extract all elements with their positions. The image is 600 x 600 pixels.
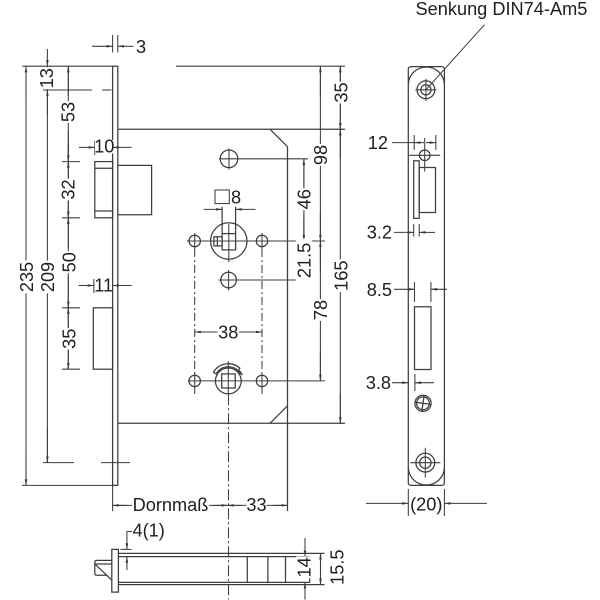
dim 11 left arrow [79, 285, 94, 287]
left dash-dot centerline [194, 249, 196, 375]
dim 33 arrow left [228, 504, 242, 506]
dim 21.5 arrow up [303, 241, 305, 260]
svg-text:35: 35 [331, 82, 351, 102]
dim 32 arrow up2 [67, 144, 69, 162]
svg-text:35: 35 [59, 329, 79, 349]
dim 15.5 line down [320, 553, 322, 584]
dim 46 arrow down [303, 214, 305, 241]
svg-text:4(1): 4(1) [133, 521, 165, 541]
dim text 78 [312, 299, 328, 321]
bottom screw hole inner [420, 457, 431, 468]
dim line Dornmass-33 [113, 504, 288, 506]
screw axis extension lower-left [43, 462, 74, 464]
svg-text:11: 11 [94, 275, 113, 295]
dim 8.5 left arrow [394, 288, 415, 290]
dim 38 line left [195, 331, 218, 333]
dim 12 base line [392, 142, 414, 144]
top extension line (faceplate top) [22, 65, 114, 67]
lower follower circle [215, 368, 241, 394]
svg-text:46: 46 [294, 189, 314, 209]
dim 38 arrow left [195, 331, 205, 333]
bottom screw v-centerline [424, 448, 426, 478]
tick at latch bottom [62, 217, 80, 219]
right small hole lower v-tick [261, 373, 263, 394]
dim text 235 [18, 261, 34, 294]
dim 14 arrow up [304, 582, 306, 599]
dim 13 upper arrow [46, 49, 48, 66]
case inner bottom line [119, 581, 310, 583]
dim 3.8 tick [414, 374, 416, 391]
svg-text:14: 14 [295, 557, 315, 577]
latch bevel diagonal [95, 564, 112, 580]
phillips screw inner [417, 397, 430, 410]
dim 35R arrow down [339, 99, 341, 129]
svg-text:53: 53 [59, 102, 79, 122]
follower slot left side / extension [221, 207, 223, 251]
svg-text:Senkung DIN74-Am5: Senkung DIN74-Am5 [416, 0, 588, 19]
case outer top line + extension [119, 552, 325, 554]
dim 32 arrow down [67, 187, 69, 218]
second screw v-centerline [424, 138, 426, 172]
dim 3 left arrow [92, 45, 113, 47]
svg-text:3.8: 3.8 [366, 373, 391, 393]
dim 78 arrow up [319, 241, 321, 271]
dim 10 left arrow [79, 146, 95, 148]
plate front extension down [112, 485, 114, 511]
dim 10 right arrow [113, 146, 132, 148]
square symbol of dim 8 [215, 190, 229, 204]
dim 8 right arrow [236, 208, 256, 210]
bottom extension line (faceplate bottom) [22, 484, 114, 486]
dim 12 tick left [413, 135, 415, 150]
left small hole v-tick [194, 233, 196, 249]
dim 12 arrow left [414, 142, 424, 144]
dim 235 arrow down [25, 451, 27, 485]
second screw hole [419, 150, 430, 161]
dim 38 arrow right [252, 331, 262, 333]
dim 46 arrow up [303, 159, 305, 186]
left small hole lower v-tick [194, 373, 196, 394]
dim text 35 right [333, 82, 349, 104]
dim 12 tick right [435, 135, 437, 150]
latch housing in case [118, 165, 152, 214]
case bottom-right chamfer [270, 406, 288, 424]
svg-text:165: 165 [331, 261, 351, 291]
dim text 11 [95, 279, 112, 292]
follower square top [222, 233, 236, 235]
dim 35L arrow up [67, 308, 69, 338]
dim text 21.5 [296, 239, 312, 283]
dim 4(1) arrow up [126, 557, 128, 570]
deadbolt cutout [415, 307, 432, 370]
lock case bottom edge + extension line [118, 422, 345, 424]
case right edge + extension down to 33-dim [287, 147, 289, 511]
follower v-centerline [228, 224, 230, 262]
dim 3.2 tick left [413, 224, 415, 237]
dim 10 tick [94, 141, 96, 155]
dim 8.5 right arrow [431, 288, 447, 290]
dim 38 line right [239, 331, 262, 333]
tick at deadbolt top [62, 307, 80, 309]
follower h-centerline + extension [187, 240, 325, 242]
dim 4(1) leader horizontal [127, 531, 132, 533]
divider 3 (bottom view) [285, 557, 287, 583]
divider 2 (bottom view) [267, 557, 269, 583]
follower square bottom [222, 249, 236, 251]
dim 235 line [25, 66, 27, 485]
dim 15.5 line up [320, 553, 322, 584]
deadbolt head [93, 308, 112, 369]
dim 3.8 right arrow [415, 382, 434, 384]
svg-text:3: 3 [136, 37, 146, 57]
dim 35/165 line [339, 66, 341, 423]
svg-text:12: 12 [368, 133, 388, 153]
upper case hole [220, 150, 238, 168]
faceplate front outline [408, 67, 444, 486]
dim 46/21.5 line [303, 159, 305, 280]
dim text 10 [95, 140, 113, 154]
divider 1 (bottom view) [246, 557, 248, 583]
svg-text:21.5: 21.5 [294, 243, 314, 278]
right small hole (upper) [256, 235, 267, 246]
dim text 165 [333, 259, 349, 292]
dim 3.2 tick right [418, 224, 420, 237]
dim 98 arrow up [319, 66, 321, 96]
dim 12 arrow right [426, 142, 436, 144]
dim (20) tick right [443, 489, 445, 516]
dim text 38 [218, 325, 240, 340]
dim 4(1) tick [121, 548, 132, 550]
extension line at faceplate top towards right dims [176, 65, 345, 67]
latch bolt step line upper [95, 167, 113, 169]
main vertical centerline (dash-dot) [228, 394, 230, 599]
dim 3 tick right [117, 35, 119, 53]
dim 3 right arrow [118, 45, 134, 47]
dim 165 arrow up [339, 129, 341, 159]
case top-right chamfer [270, 129, 288, 147]
leader line to countersink [426, 25, 485, 90]
dim (20) tick left [407, 489, 409, 516]
dim 8.5 tick left [414, 282, 416, 302]
dim 3.2 right arrow [419, 231, 435, 233]
screw axis extension upper-left [43, 89, 92, 91]
lower case hole v-centerline [228, 270, 230, 291]
svg-text:32: 32 [59, 179, 79, 199]
dim 13 lower arrow [46, 90, 48, 114]
bottom screw hole outer [416, 453, 435, 472]
dim text 46 [296, 188, 312, 210]
dim 53 arrow up [67, 66, 69, 96]
svg-text:33: 33 [246, 495, 266, 515]
left small hole (lower) [189, 375, 200, 386]
svg-text:15.5: 15.5 [328, 549, 348, 584]
phillips screw outer [415, 395, 431, 411]
dim text Dornmass [132, 497, 209, 513]
bottom screw h-centerline [410, 462, 440, 464]
dim text 209 [39, 261, 55, 294]
dim (20) right arrow [444, 502, 487, 504]
Dornmass arrow right [213, 504, 228, 506]
dim 32 arrow up [67, 162, 69, 192]
svg-text:13: 13 [37, 68, 57, 88]
latch bolt head [95, 162, 113, 218]
dim text 14 [296, 556, 312, 578]
case outer bottom line + extension [119, 584, 325, 586]
dim 21.5 join [303, 219, 305, 241]
top screw h-centerline [415, 89, 436, 91]
lower case hole h-centerline + extension [219, 279, 309, 281]
dim 8.5 tick right [430, 282, 432, 302]
tick at deadbolt bottom [62, 368, 80, 370]
lower follower h-centerline + extension [188, 380, 325, 382]
top screw hole outer [417, 81, 435, 99]
dim text 98 [312, 144, 328, 166]
follower slot right side / extension [235, 207, 237, 251]
latch cutout narrow slot [414, 161, 420, 219]
dim text 35 left [61, 328, 77, 350]
svg-text:Dornmaß: Dornmaß [133, 495, 209, 515]
dim 14 arrow down [304, 538, 306, 557]
svg-text:78: 78 [311, 300, 331, 320]
phillips screw cross [414, 394, 433, 413]
left small hole (upper) [189, 235, 200, 246]
dim text 50 [61, 251, 77, 273]
dim 3.8 left arrow [392, 382, 408, 384]
dim 13/209 line [46, 66, 48, 462]
latch head outline (bottom view) [95, 560, 112, 575]
dim 33 arrow right [273, 504, 288, 506]
dim 11 right arrow [113, 285, 132, 287]
case inner top line [119, 556, 310, 558]
lower follower v-centerline [227, 361, 229, 394]
case inner right end [309, 557, 311, 583]
dim 21.5 arrow down [303, 254, 305, 280]
latch head top face line [95, 563, 112, 565]
dim text 15.5 [329, 550, 345, 584]
Dornmass arrow left [113, 504, 127, 506]
latch bolt step line lower [95, 210, 113, 212]
svg-text:50: 50 [59, 252, 79, 272]
follower tab divider [216, 237, 218, 246]
second screw h-centerline [409, 154, 440, 156]
lower follower cam lobe [213, 364, 242, 375]
screw axis tick at plate (lower) [101, 462, 130, 464]
follower left tab [214, 237, 222, 246]
dim 78 arrow down [319, 351, 321, 381]
svg-text:3.2: 3.2 [367, 223, 392, 243]
svg-text:209: 209 [38, 262, 58, 292]
right small hole v-tick [261, 233, 263, 249]
faceplate top rounding arc [408, 67, 444, 85]
screw axis tick at plate (upper) [102, 89, 112, 91]
dim 4(1) arrow down [126, 532, 128, 550]
dim text 32 [60, 179, 76, 201]
dim 35R arrow up [339, 66, 341, 96]
dim 98 arrow down [319, 211, 321, 241]
faceplate bar (bottom view) [112, 549, 119, 592]
dim 50 arrow down [67, 277, 69, 308]
top screw v-centerline [425, 79, 427, 101]
svg-text:10: 10 [94, 137, 114, 157]
latch cutout main opening [419, 168, 435, 213]
right dash-dot centerline [261, 249, 263, 375]
faceplate (side view) [113, 66, 118, 485]
dim text 13 [38, 67, 54, 89]
dim text 53 [60, 101, 76, 123]
dim 3 tick left [112, 35, 114, 53]
svg-text:235: 235 [17, 262, 37, 292]
dim text 33 [247, 497, 267, 513]
dim 35L arrow down [67, 339, 69, 369]
svg-text:38: 38 [218, 323, 238, 343]
lower case hole [221, 272, 237, 288]
dim 50 arrow up [67, 218, 69, 248]
dim 11 tick [93, 279, 95, 293]
svg-text:98: 98 [311, 145, 331, 165]
dim chain line 53-32-50-35 [67, 66, 69, 369]
svg-text:(20): (20) [410, 495, 442, 515]
dim 98/78 line [319, 66, 321, 381]
lock case top edge + extension line [118, 128, 345, 130]
tick at latch top [62, 161, 80, 163]
right small hole (lower) [256, 375, 267, 386]
dim 165 arrow down [339, 393, 341, 423]
lower follower square hole [222, 374, 236, 388]
upper follower circle [211, 223, 247, 259]
dim 3.2 left arrow [394, 231, 414, 233]
dim 235 arrow up [25, 66, 27, 100]
upper case hole h-centerline + extension [219, 158, 308, 160]
dim 53 arrow down [67, 131, 69, 162]
dim (20) left arrow [366, 502, 408, 504]
svg-text:8: 8 [231, 188, 241, 208]
svg-text:8.5: 8.5 [367, 280, 392, 300]
dim 209 arrow down [46, 428, 48, 463]
top screw hole inner [421, 85, 431, 95]
upper case hole v-centerline [228, 149, 230, 170]
faceplate bottom rounding arc [408, 467, 444, 485]
dim 8 left arrow [204, 208, 223, 210]
